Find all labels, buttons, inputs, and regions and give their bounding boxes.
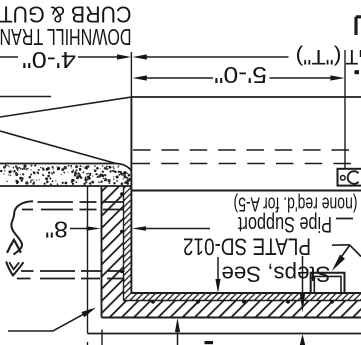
arrowhead down x=218 — [215, 279, 220, 293]
dimension extension line at x=345 — [344, 50, 346, 169]
wire ground line right — [131, 96, 361, 98]
bolt circle small — [341, 176, 346, 181]
slab bottom line — [102, 317, 361, 319]
slab rebar zone line — [124, 300, 361, 302]
pipe break chevron down inner — [9, 262, 19, 269]
pavement band outline with curb radius — [0, 164, 131, 172]
cut text mark bottom — [205, 341, 214, 344]
leader arrow down long at x=302 — [302, 256, 304, 296]
pipe hidden line bottom pair — [17, 271, 125, 279]
dimension ("T") leader line — [147, 56, 289, 58]
arrowhead up x=177.5 — [175, 318, 180, 332]
svg-text:4'-0": 4'-0" — [22, 47, 76, 73]
extension line x=87.5 — [87, 186, 89, 334]
arrowhead corner leader — [81, 308, 96, 318]
arrowhead steps leader — [332, 255, 345, 271]
dimension 5'-0" line — [147, 77, 214, 79]
step rung (double rectangle) — [311, 273, 345, 293]
frame box with circles (top right) — [338, 169, 361, 186]
pipe hidden line top pair — [22, 202, 124, 210]
wire top-of-curb line left — [0, 96, 51, 98]
concrete speckles — [3, 164, 131, 185]
wire transition wedge diagonal — [0, 131, 116, 164]
svg-text:5'-0": 5'-0" — [214, 62, 267, 88]
pipe break chevron up — [7, 240, 21, 253]
wall fine liner hatch — [124, 186, 361, 301]
pipe support leader dash — [336, 218, 353, 220]
letter C circle — [348, 171, 359, 184]
rebar dots wall — [120, 192, 123, 195]
slab underside line — [131, 190, 361, 192]
wall rebar zone line — [123, 186, 125, 301]
svg-text:PLATE SD-012: PLATE SD-012 — [183, 233, 311, 260]
wall outer face — [101, 186, 103, 318]
leader to outer corner (bottom left) — [8, 315, 83, 331]
steps leader — [332, 244, 350, 246]
arrowhead 8" right pointing left — [132, 226, 146, 231]
arrowhead 4'-0" right — [117, 54, 131, 59]
hidden dashed line lower (pavement surface continuation) — [133, 163, 352, 165]
dimension extension tick at x=131 — [130, 52, 132, 97]
svg-text:8": 8" — [45, 217, 68, 243]
arrowhead 5'-0" right — [330, 75, 344, 80]
dimension 4'-0" line — [0, 56, 18, 58]
svg-text:DOWNHILL TRAN: DOWNHILL TRAN — [0, 24, 132, 50]
cut letter sliver right of T — [360, 50, 361, 57]
rebar dots slab — [120, 192, 334, 303]
arrowhead (T) left — [133, 54, 147, 59]
arrowhead 8" left pointing right — [87, 226, 101, 231]
pavement band bottom line — [0, 185, 131, 187]
svg-text:(none req'd. for A-5): (none req'd. for A-5) — [234, 193, 358, 215]
pipe break chevron down outer — [6, 262, 23, 276]
interior floor line (slab top) — [131, 292, 361, 294]
arrowhead 5'-0" left — [133, 75, 147, 80]
cut text mark right — [355, 70, 360, 74]
wall coarse concrete hatch — [102, 186, 361, 318]
svg-text:("T"): ("T") — [296, 45, 342, 68]
pipe break symbol S-curve — [11, 201, 33, 254]
leader arrow down at x=218 — [217, 257, 219, 280]
arrowhead down long x=302 — [300, 294, 305, 313]
arrowhead up x=302.5 bottom — [300, 334, 306, 345]
curb face vertical / wall inner face — [130, 97, 132, 293]
subgrade line — [88, 333, 361, 335]
dimension shaft up-arrow x=177.5 — [177, 331, 179, 345]
svg-text:T: T — [345, 45, 358, 68]
8 inch dimension lines — [70, 228, 87, 230]
cut letter L (rotated) top right — [356, 17, 361, 35]
svg-text:Steps, See: Steps, See — [222, 262, 331, 287]
extension line x=102 below slab — [101, 330, 103, 345]
hidden dashed line upper — [133, 149, 349, 151]
svg-text:CURB & GUT: CURB & GUT — [0, 1, 132, 27]
wire gutter taper diagonal — [0, 97, 131, 117]
